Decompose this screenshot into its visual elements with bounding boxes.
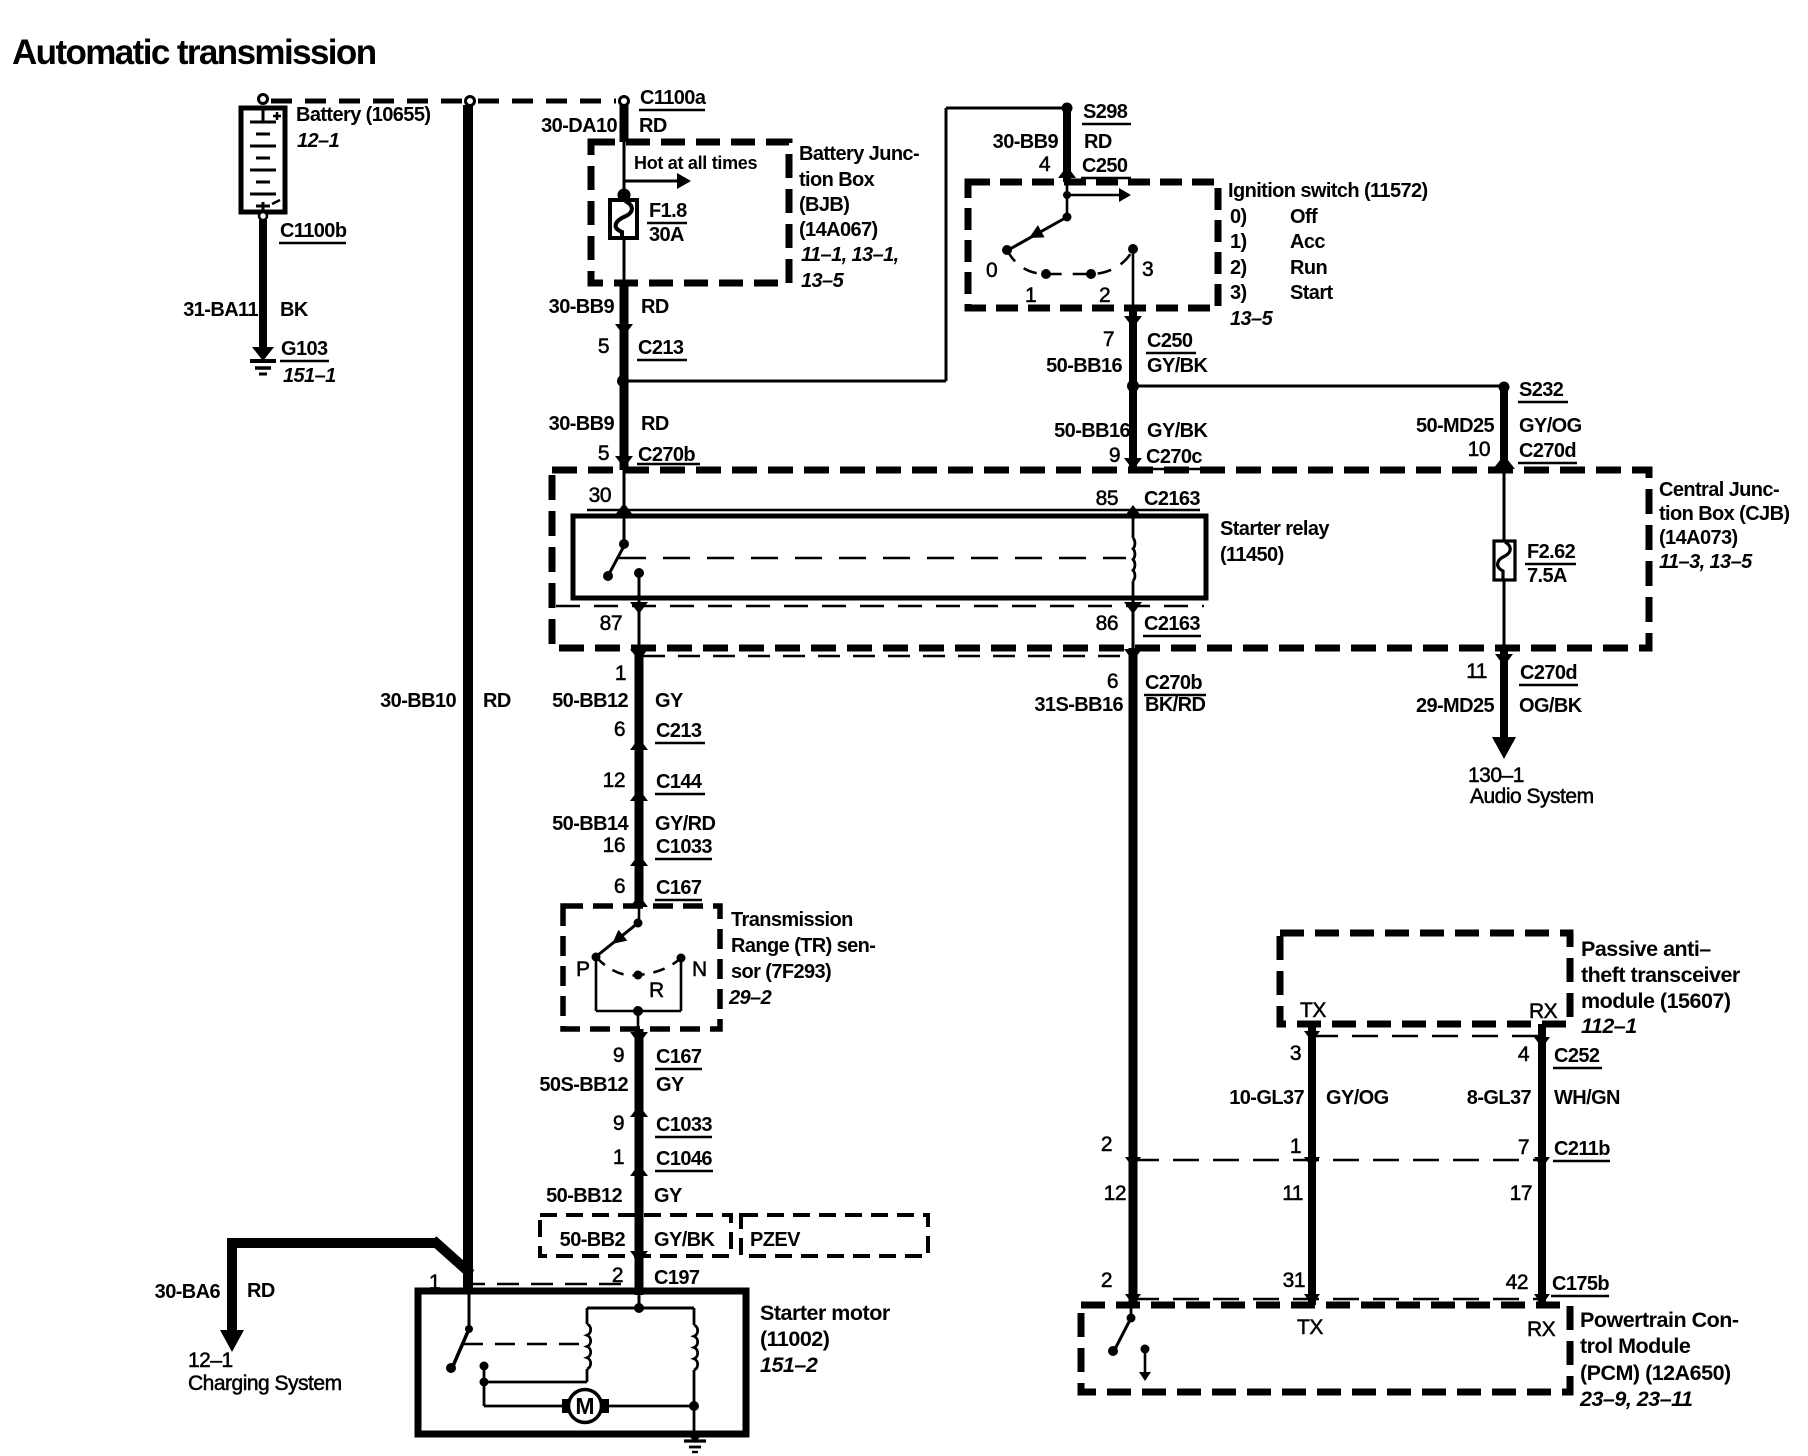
connector C270b pin 1 arrow [630,649,648,661]
connector C1100a label [639,87,707,110]
svg-text:29-MD25: 29-MD25 [1416,695,1495,717]
connector C213 pin 6 label [614,718,705,743]
relay actuator dashed link [619,557,1126,560]
wire: relay pin 30 internal [623,470,626,542]
svg-text:12–1: 12–1 [297,130,340,152]
node: junction to S298 [617,375,629,387]
wire code 50-BB16 GY/BK second [1054,420,1208,442]
connector C252 dashed line [1312,1035,1542,1038]
ignition switch contact 1 [1041,269,1051,279]
starter field winding left [587,1308,591,1382]
connector C1100b label [279,220,347,243]
node: fuse tap [618,189,631,202]
svg-text:7: 7 [1518,1136,1529,1159]
svg-text:Charging System: Charging System [188,1372,342,1395]
wire code 10-GL37 GY/OG [1229,1087,1388,1109]
svg-text:Battery Junc-: Battery Junc- [799,143,919,165]
svg-text:Transmission: Transmission [731,909,853,931]
svg-text:C1033: C1033 [656,1114,712,1136]
svg-text:11–1, 13–1,: 11–1, 13–1, [801,244,899,266]
connector C211b dashed line [1133,1159,1542,1162]
svg-text:M: M [575,1393,594,1419]
svg-text:Powertrain Con-: Powertrain Con- [1580,1308,1739,1332]
relay switch fixed contact [619,539,629,549]
powertrain control module (PCM) dashed outline [1081,1305,1570,1392]
wire: 30-BB9 RD below BJB [620,283,629,470]
svg-text:2): 2) [1230,257,1247,279]
splice S232 label [1518,379,1568,402]
starter field winding right [694,1308,698,1406]
svg-text:GY/BK: GY/BK [1147,420,1208,442]
svg-text:Acc: Acc [1290,231,1325,253]
splice S298 node [1062,103,1073,114]
svg-text:4: 4 [1518,1043,1530,1066]
svg-text:12–1: 12–1 [188,1349,233,1372]
svg-text:Run: Run [1290,257,1327,279]
wire: 30-DA10 RD from C1100a into BJB [620,105,629,142]
svg-text:2: 2 [1101,1133,1112,1156]
svg-text:6: 6 [1107,670,1118,693]
relay pin 85 label [1096,487,1201,510]
ignition switch contact 2 [1086,269,1096,279]
svg-text:1: 1 [1025,284,1036,307]
svg-text:tion Box (CJB): tion Box (CJB) [1659,503,1789,525]
svg-text:RD: RD [641,296,669,318]
svg-text:GY: GY [654,1185,683,1207]
connector C197 arrow down [630,1251,648,1263]
svg-text:RD: RD [639,115,667,137]
svg-text:C144: C144 [656,771,703,793]
svg-text:GY/OG: GY/OG [1519,415,1582,437]
ignition switch internal feed [1063,182,1131,217]
connector C250 pin 7 label [1103,328,1196,353]
PCM internal switch [1108,1305,1136,1356]
battery bottom terminal node [259,212,267,220]
svg-text:(11450): (11450) [1220,544,1284,566]
svg-text:85: 85 [1096,487,1118,510]
svg-text:10: 10 [1468,438,1490,461]
connector C175b pin 42 label [1506,1271,1610,1296]
svg-text:50-BB16: 50-BB16 [1054,420,1130,442]
svg-text:C211b: C211b [1554,1138,1610,1160]
node: junction to S232 [1127,380,1139,392]
svg-text:1: 1 [615,662,626,685]
starter solenoid dashed link [463,1343,584,1346]
svg-text:10-GL37: 10-GL37 [1229,1087,1304,1109]
connector C211b pin 7 label [1518,1136,1610,1161]
svg-text:TX: TX [1300,999,1326,1022]
starter relay (11450) outline [573,516,1206,598]
svg-text:C250: C250 [1082,155,1128,177]
TR position labels [576,958,707,1002]
svg-text:30: 30 [589,484,611,507]
svg-text:Range (TR) sen-: Range (TR) sen- [731,935,875,957]
connector C270d pin 11 arrow [1495,654,1513,666]
svg-text:C213: C213 [638,337,684,359]
wire: 50-BB12 GY relay to TR sensor [635,648,644,906]
connector C252 RX arrow [1534,1037,1550,1048]
wire: 31S-BB16 BK/RD relay to PCM [1129,648,1138,1305]
svg-text:GY/OG: GY/OG [1326,1087,1389,1109]
battery (10655) symbol [241,108,285,212]
fuse F2.62 label [1525,541,1576,587]
ignition switch label [1228,180,1428,330]
starter motor feed node [587,1291,694,1313]
connector C175b TX arrow [1304,1294,1320,1305]
svg-text:RX: RX [1527,1318,1556,1341]
svg-text:GY: GY [655,690,684,712]
svg-text:7: 7 [1103,328,1114,351]
wire: BJB internal below fuse [623,238,626,284]
passive anti-theft transceiver module dashed outline [1280,933,1570,1024]
svg-text:theft transceiver: theft transceiver [1581,963,1741,987]
connector C270b dashed line at CJB exit [643,655,1128,658]
svg-text:13–5: 13–5 [801,270,845,292]
wire code 50-BB12 GY lower [546,1185,683,1207]
starter relay label [1220,518,1330,566]
wire: dashed battery feed to C1100a [271,99,616,104]
svg-text:87: 87 [600,612,622,635]
connector C144 pin 12 label [603,769,705,794]
wire: 50S-BB12 GY to starter motor [635,1029,644,1295]
connector C211b arrow left wire [1125,1157,1141,1168]
ignition switch (11572) dashed outline [968,182,1218,308]
wire: 29-MD25 OG/BK to audio system [1500,648,1508,738]
svg-text:13–5: 13–5 [1230,308,1274,330]
PZEV alternate wire code 50-BB2 GY/BK [560,1229,716,1251]
svg-text:C250: C250 [1147,330,1193,352]
wire: branch to splice S232 [1133,385,1500,388]
wire: 30-BB9 RD to ignition switch [1063,108,1071,182]
connector C252 TX arrow [1304,1031,1320,1042]
svg-text:31: 31 [1283,1269,1305,1292]
wire code 8-GL37 WH/GN [1467,1087,1620,1109]
svg-text:F1.8: F1.8 [649,200,687,222]
connector C197 pin 2 label [612,1264,701,1290]
svg-text:BK: BK [280,299,309,321]
svg-text:(14A073): (14A073) [1659,527,1738,549]
svg-text:Central Junc-: Central Junc- [1659,479,1779,501]
ignition switch contact arc [1007,249,1133,274]
svg-text:C213: C213 [656,720,702,742]
connector C167 pin 9 label [613,1044,702,1069]
svg-text:50-BB16: 50-BB16 [1046,355,1122,377]
connector C270b arrow [615,456,633,468]
wire code 31S-BB16 BK/RD [1034,694,1205,716]
svg-text:(14A067): (14A067) [799,219,878,241]
CJB label [1659,479,1789,573]
svg-text:TX: TX [1297,1316,1323,1339]
svg-text:0): 0) [1230,206,1247,228]
svg-text:1: 1 [613,1146,624,1169]
svg-text:S232: S232 [1519,379,1564,401]
svg-text:1: 1 [1290,1135,1301,1158]
svg-text:17: 17 [1510,1182,1532,1205]
TR sensor label [728,909,875,1009]
svg-text:S298: S298 [1083,101,1128,123]
connector C1033 pin 9 arrow [630,1105,648,1117]
svg-text:C2163: C2163 [1144,613,1200,635]
svg-text:3): 3) [1230,282,1247,304]
connector C167 arrow up [630,895,648,907]
svg-text:tion Box: tion Box [799,169,875,191]
svg-text:RD: RD [247,1280,275,1302]
connector C175b RX arrow [1534,1294,1550,1305]
svg-text:C270d: C270d [1519,440,1576,462]
TR contact N [677,954,686,963]
battery junction box (BJB) dashed outline [591,142,789,283]
relay coil [1133,516,1135,598]
PZEV tag dashed box [741,1215,928,1256]
connector C213 arrow [615,324,633,336]
svg-text:C2163: C2163 [1144,488,1200,510]
fuse F1.8 30A label [647,200,687,246]
svg-text:Off: Off [1290,206,1318,228]
svg-text:C197: C197 [654,1267,700,1289]
svg-text:6: 6 [614,875,625,898]
wire code 30-BA6 RD [155,1280,275,1303]
svg-text:Start: Start [1290,282,1334,304]
svg-text:C270b: C270b [1145,672,1202,694]
svg-text:29–2: 29–2 [728,987,772,1009]
wire: relay pin 87 internal [634,568,644,598]
ignition switch rotor arm [1010,213,1072,250]
relay pin 30 arrow up [615,503,633,515]
svg-text:(PCM) (12A650): (PCM) (12A650) [1580,1361,1731,1385]
connector C2163 top line [587,509,1200,512]
transmission range (TR) sensor dashed outline [563,906,720,1029]
TR internal wiring [596,957,681,1029]
arrow to audio system [1492,737,1516,759]
svg-text:C167: C167 [656,1046,702,1068]
wire code 29-MD25 OG/BK [1416,695,1583,717]
connector C270b pin 5 label [598,442,700,466]
connector C144 arrow up [630,789,648,801]
svg-text:OG/BK: OG/BK [1519,695,1583,717]
svg-text:8-GL37: 8-GL37 [1467,1087,1532,1109]
svg-text:C1046: C1046 [656,1148,712,1170]
svg-text:C270d: C270d [1520,662,1577,684]
fuse F2.62 7.5A [1494,541,1515,580]
svg-text:C270b: C270b [638,444,695,466]
connector C211b RX arrow [1534,1157,1550,1168]
svg-text:30-BB10: 30-BB10 [380,690,456,712]
svg-text:Passive anti–: Passive anti– [1581,937,1711,961]
connector C270d arrow up [1493,455,1515,469]
svg-text:PZEV: PZEV [750,1229,801,1251]
svg-text:16: 16 [603,834,625,857]
starter motor (11002) outline [418,1291,746,1434]
svg-text:30-DA10: 30-DA10 [541,115,617,137]
ignition switch contact 3 [1128,244,1138,254]
svg-text:GY/RD: GY/RD [655,813,715,835]
BJB label [799,143,919,292]
starter motor M armature [562,1390,609,1423]
svg-text:C175b: C175b [1552,1273,1609,1295]
wire code 30-BB10 RD [380,690,511,712]
svg-text:sor (7F293): sor (7F293) [731,961,831,983]
connector C213 arrow up lower [630,738,648,750]
battery label [296,104,430,152]
svg-text:Audio System: Audio System [1470,785,1594,808]
connector C211b TX arrow [1304,1157,1320,1168]
connector C250 pin 4 label [1039,153,1131,178]
starter motor ground wiring [608,1401,699,1434]
svg-text:9: 9 [613,1044,624,1067]
svg-text:Hot at all times: Hot at all times [634,153,758,173]
svg-text:11: 11 [1282,1182,1303,1205]
wire code 50-BB14 GY/RD [552,813,715,835]
PZEV alternate wire dashed box [540,1215,731,1256]
connector C167 pin 6 label [614,875,702,900]
wire code 50-BB12 GY [552,690,684,712]
svg-text:23–9, 23–11: 23–9, 23–11 [1579,1387,1692,1411]
battery top terminal node [259,95,268,104]
svg-text:1): 1) [1230,231,1247,253]
svg-text:F2.62: F2.62 [1527,541,1576,563]
svg-text:R: R [649,979,664,1002]
svg-text:Battery (10655): Battery (10655) [296,104,430,126]
ignition switch position labels [986,258,1153,307]
svg-text:GY/BK: GY/BK [1147,355,1208,377]
svg-text:30-BB9: 30-BB9 [549,413,615,435]
starter brush wiring [480,1362,588,1407]
connector C167 pin 9 arrow [630,1032,648,1044]
svg-text:0: 0 [986,259,997,282]
wire code 31-BA11 BK [183,299,309,321]
svg-text:3: 3 [1142,258,1153,281]
node: trunk junction at top [466,97,475,106]
connector C1046 arrow up [630,1164,648,1176]
arrow to charging system [220,1330,244,1352]
wire code 50-MD25 GY/OG [1416,415,1582,437]
svg-text:BK/RD: BK/RD [1145,694,1205,716]
svg-text:C167: C167 [656,877,702,899]
connector C1046 pin 1 label [613,1146,713,1171]
svg-text:50-MD25: 50-MD25 [1416,415,1495,437]
relay pin 87 arrow down [630,602,648,614]
svg-text:9: 9 [1109,444,1120,467]
TR mid contact R [634,971,643,980]
audio system reference label [1468,764,1594,808]
svg-text:RD: RD [483,690,511,712]
svg-text:RD: RD [1084,131,1112,153]
connector C252 pin 4 label [1518,1043,1602,1068]
wire: 50-BB16 GY/BK below ignition [1129,308,1137,470]
svg-text:P: P [576,958,590,981]
svg-text:C252: C252 [1554,1045,1600,1067]
connector C197 dashed line [463,1283,630,1286]
svg-text:7.5A: 7.5A [1527,565,1567,587]
PCM label [1579,1308,1739,1411]
connector C175b arrow left wire [1125,1294,1141,1305]
svg-text:C1033: C1033 [656,836,712,858]
connector C270d pin 10 label [1468,438,1577,463]
svg-text:C270c: C270c [1146,446,1202,468]
svg-text:Starter motor: Starter motor [760,1301,891,1325]
node: C1100a terminal [620,97,629,106]
charging system reference label [188,1349,342,1395]
svg-text:50-BB2: 50-BB2 [560,1229,626,1251]
relay pin 86 arrow down [1124,602,1142,614]
wire: branch to charging system 30-BA6 RD [232,1238,471,1332]
svg-text:9: 9 [613,1112,624,1135]
ignition switch contact 0 [1002,245,1012,255]
wire code 50-BB16 GY/BK [1046,355,1208,377]
TR sensor rotor arm [598,906,643,955]
svg-text:112–1: 112–1 [1581,1014,1637,1038]
connector C270d pin 11 label [1466,660,1578,685]
wire code 30-BB9 RD [549,296,669,318]
relay switch arm [603,546,624,581]
svg-text:30-BB9: 30-BB9 [549,296,615,318]
wire: TX 10-GL37 GY/OG [1308,1024,1316,1305]
TR contact arc [596,957,681,975]
connector C213 pin 5 label [598,335,687,360]
svg-text:RD: RD [641,413,669,435]
ground G103 [250,347,276,374]
svg-text:Starter relay: Starter relay [1220,518,1330,540]
svg-text:50-BB12: 50-BB12 [546,1185,622,1207]
svg-text:11–3, 13–5: 11–3, 13–5 [1659,551,1753,573]
starter motor label [760,1301,891,1377]
central junction box (CJB) dashed outline [552,470,1649,648]
connector C1033 pin 16 label [603,834,713,859]
connector C250 arrow up [1058,166,1076,178]
svg-text:trol Module: trol Module [1580,1334,1691,1358]
svg-text:GY: GY [656,1074,685,1096]
connector C175b dashed line [1133,1298,1542,1301]
wire code 30-DA10 RD [541,115,667,137]
svg-text:RX: RX [1529,1000,1558,1023]
wire code 50S-BB12 GY [539,1074,685,1096]
wire: ignition output to pin 7 [1132,249,1135,310]
svg-text:130–1: 130–1 [1468,764,1524,787]
svg-text:module (15607): module (15607) [1581,989,1731,1013]
svg-text:30A: 30A [649,224,684,246]
svg-text:2: 2 [1101,1269,1112,1292]
PCM internal ground stub [1139,1345,1151,1382]
svg-text:30-BA6: 30-BA6 [155,1281,221,1303]
svg-text:5: 5 [598,335,609,358]
svg-text:50-BB14: 50-BB14 [552,813,629,835]
wire: relay pin 86 to CJB edge [1132,598,1135,650]
hot feed arrow [624,173,691,189]
svg-text:WH/GN: WH/GN [1554,1087,1620,1109]
TR contact P [592,953,601,962]
svg-text:(BJB): (BJB) [799,194,849,216]
relay pin 86 label [1096,612,1201,636]
svg-text:151–1: 151–1 [283,365,336,387]
svg-text:31-BA11: 31-BA11 [183,299,258,321]
svg-text:12: 12 [1104,1182,1126,1205]
svg-text:12: 12 [603,769,625,792]
connector C270b pin 6 label [1107,670,1206,695]
svg-text:2: 2 [1099,284,1110,307]
svg-text:42: 42 [1506,1271,1528,1294]
svg-text:Automatic transmission: Automatic transmission [12,33,376,72]
wire code 30-BB9 RD at ignition [993,131,1112,153]
svg-text:(11002): (11002) [760,1327,830,1351]
wire: relay pin 87 to CJB edge [638,598,641,650]
wire: below fuse inside CJB [1503,580,1506,650]
ground G103 label [280,338,336,387]
svg-text:50-BB12: 50-BB12 [552,690,628,712]
fuse F2.62 feed inside CJB [1503,470,1506,541]
anti-theft module label [1581,937,1741,1038]
wire: 50-MD25 GY/OG to CJB [1500,387,1508,470]
svg-text:151–2: 151–2 [760,1353,818,1377]
